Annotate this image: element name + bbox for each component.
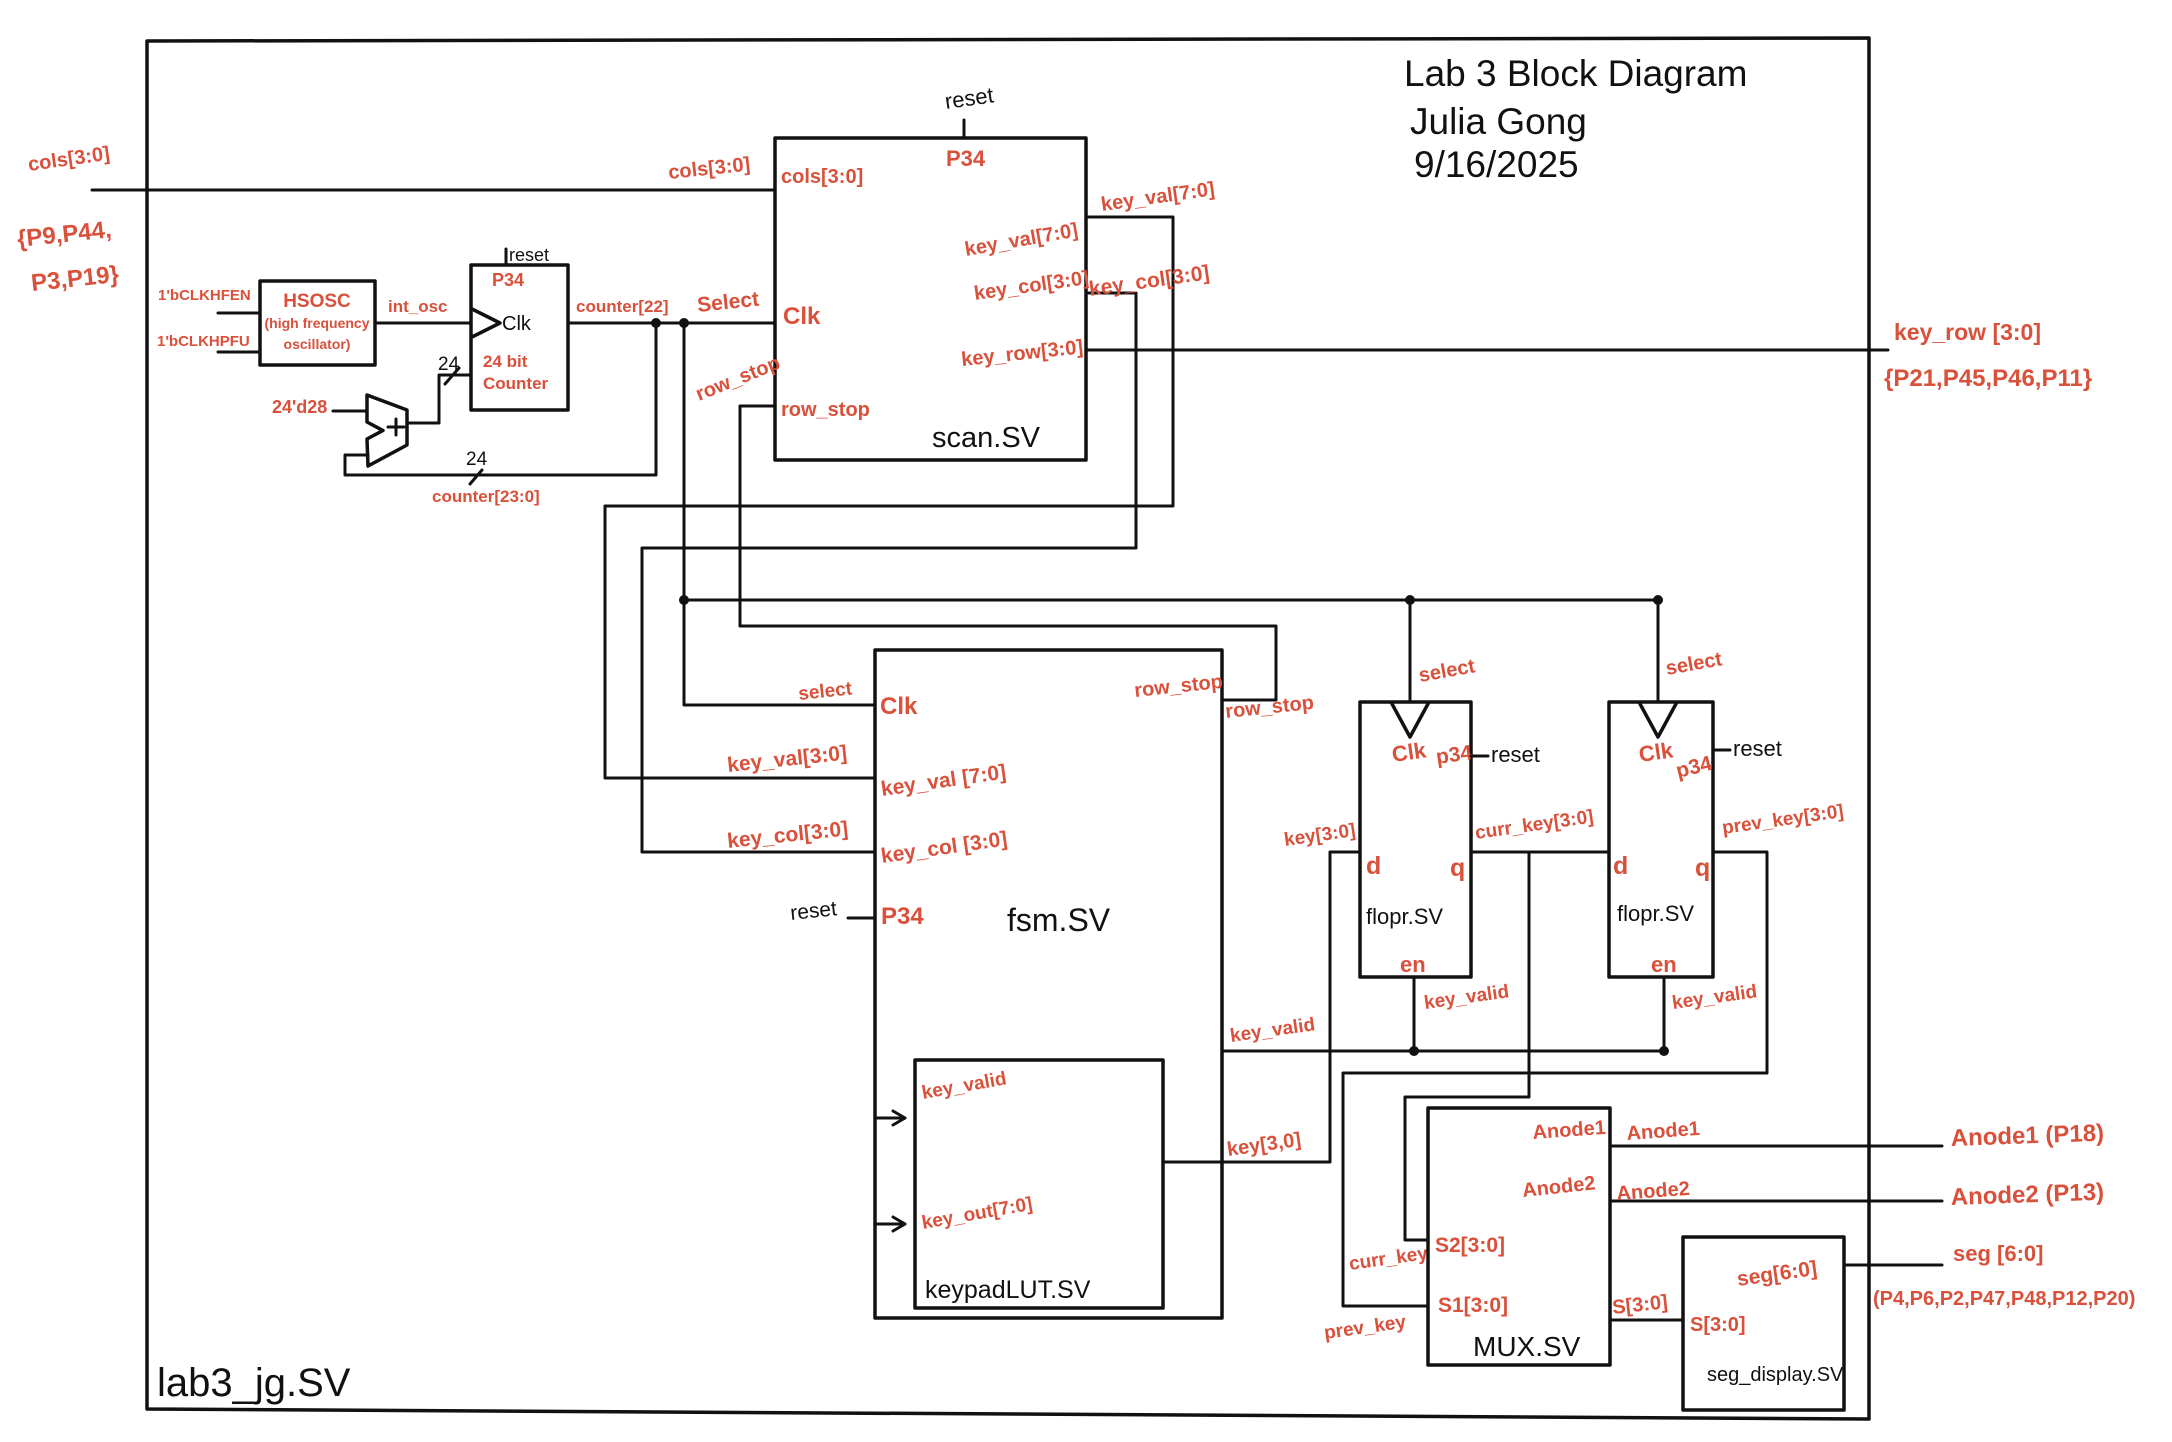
junction select at counter wire <box>679 318 689 328</box>
svg-text:P34: P34 <box>492 270 524 290</box>
svg-text:{P21,P45,P46,P11}: {P21,P45,P46,P11} <box>1884 365 2092 392</box>
wire prev_key[3:0] <box>1343 852 1767 1306</box>
label counter[22] <box>576 297 669 316</box>
label seg[6:0] pin <box>1735 1257 1818 1291</box>
svg-text:HSOSC: HSOSC <box>283 291 351 312</box>
label reset flopr2 <box>1733 736 1782 761</box>
wire CLKHPFU input <box>218 351 260 354</box>
module MUX.SV <box>1428 1108 1610 1365</box>
wire CLKHFEN input <box>218 312 260 315</box>
label key[3:0] at flopr1 d <box>1283 820 1357 851</box>
svg-text:Anode1 (P18): Anode1 (P18) <box>1950 1120 2104 1152</box>
label prev_key[3:0] <box>1721 801 1845 839</box>
junction key_valid flopr1 <box>1409 1046 1419 1056</box>
label key_col[3:0] fsm pin <box>879 827 1008 867</box>
svg-text:d: d <box>1613 852 1628 880</box>
label key_val[7:0] right of scan <box>1100 178 1216 216</box>
wire arrow into key_valid <box>877 1111 905 1125</box>
module HSOSC U1 <box>260 281 375 365</box>
svg-text:seg_display.SV: seg_display.SV <box>1707 1364 1844 1386</box>
label Clk flopr1 pin <box>1390 737 1428 767</box>
svg-text:MUX.SV: MUX.SV <box>1473 1331 1581 1362</box>
wire counter reset tick <box>505 249 508 265</box>
label key_out[7:0] keypadLUT pin <box>920 1194 1034 1234</box>
svg-text:24: 24 <box>438 354 460 375</box>
wire select net <box>684 323 1658 705</box>
svg-text:Clk: Clk <box>1390 737 1428 767</box>
label row_stop fsm pin <box>1133 671 1224 702</box>
svg-text:24: 24 <box>466 449 488 470</box>
svg-text:en: en <box>1400 952 1426 977</box>
label P34 fsm pin <box>881 903 924 930</box>
label cols[3:0] far left <box>27 143 112 176</box>
svg-text:seg [6:0]: seg [6:0] <box>1953 1241 2043 1266</box>
label key_valid below flopr1 <box>1423 981 1511 1014</box>
junction select flopr2 <box>1653 595 1663 605</box>
svg-text:Julia Gong: Julia Gong <box>1410 101 1587 142</box>
wire cols[3:0] <box>92 189 775 192</box>
svg-text:cols[3:0]: cols[3:0] <box>781 166 863 188</box>
svg-text:fsm.SV: fsm.SV <box>1007 902 1111 938</box>
svg-text:lab3_jg.SV: lab3_jg.SV <box>157 1361 351 1405</box>
svg-text:reset: reset <box>789 897 838 925</box>
wire int_osc <box>375 322 471 325</box>
label P34 counter reset pin <box>492 270 524 290</box>
svg-text:reset: reset <box>1733 736 1782 761</box>
bus slash 24 (feedback) <box>466 449 488 484</box>
label en flopr2 pin <box>1651 952 1677 977</box>
wire row_stop <box>740 406 1276 700</box>
label key_col[3:0] right of scan <box>1087 261 1210 301</box>
label S2[3:0] mux pin <box>1435 1234 1505 1257</box>
svg-text:counter[22]: counter[22] <box>576 297 669 316</box>
svg-text:1'bCLKHPFU: 1'bCLKHPFU <box>157 333 250 350</box>
module fsm.SV <box>875 650 1222 1318</box>
label q flopr2 pin <box>1695 854 1710 882</box>
label key_valid keypadLUT pin <box>920 1068 1008 1104</box>
label cols[3:0] scan pin <box>781 166 863 188</box>
svg-text:P34: P34 <box>881 903 924 930</box>
label reset (scan) <box>943 82 995 114</box>
label curr_key at mux <box>1348 1243 1430 1275</box>
wire curr_key[3:0] <box>1405 852 1609 1240</box>
svg-text:q: q <box>1695 854 1710 882</box>
label key_val[3:0] at fsm <box>726 742 848 777</box>
wire counter[23:0] feedback <box>345 323 775 475</box>
svg-text:Anode2 (P13): Anode2 (P13) <box>1950 1179 2104 1211</box>
svg-text:24'd28: 24'd28 <box>272 397 327 417</box>
label select at flopr1 <box>1417 655 1477 687</box>
bus slash 24 (adder output) <box>438 354 460 384</box>
svg-text:keypadLUT.SV: keypadLUT.SV <box>925 1276 1091 1304</box>
wire scan reset tick <box>963 120 966 138</box>
label key[3,0] <box>1226 1129 1303 1161</box>
clock edge symbol flopr1 <box>1391 702 1429 737</box>
svg-text:flopr.SV: flopr.SV <box>1617 901 1694 926</box>
label 24'd28 <box>272 397 327 417</box>
label d flopr2 pin <box>1613 852 1628 880</box>
label counter[23:0] <box>432 487 540 506</box>
label select at flopr2 <box>1664 648 1724 680</box>
wire key_col[3:0] <box>642 293 1136 852</box>
junction select flopr1 <box>1405 595 1415 605</box>
svg-text:S2[3:0]: S2[3:0] <box>1435 1234 1505 1257</box>
svg-text:9/16/2025: 9/16/2025 <box>1414 144 1579 185</box>
wire Anode2 <box>1610 1200 1942 1203</box>
label key_valid near fsm <box>1229 1014 1317 1047</box>
label seg pins list <box>1873 1288 2135 1310</box>
label S[3:0] seg pin <box>1690 1314 1746 1336</box>
label Anode1 mux pin <box>1532 1117 1607 1144</box>
label row_stop right of fsm <box>1224 692 1315 723</box>
label Anode2 outside <box>1616 1178 1691 1205</box>
svg-text:int_osc: int_osc <box>388 297 448 316</box>
label select at fsm clk <box>797 678 853 705</box>
label Clk (counter) <box>502 313 532 335</box>
label seg[6:0] outside <box>1953 1241 2043 1266</box>
module flopr.SV U3 <box>1360 702 1471 977</box>
svg-text:scan.SV: scan.SV <box>932 422 1041 454</box>
svg-text:Clk: Clk <box>783 303 821 330</box>
label reset (counter) <box>509 245 549 265</box>
wire key[3:0] <box>1163 852 1360 1162</box>
wire flopr2 reset tick <box>1713 749 1730 752</box>
label int_osc <box>388 297 448 316</box>
label key_col[3:0] at fsm <box>726 817 849 853</box>
module scan.SV <box>775 138 1086 460</box>
svg-text:S[3:0]: S[3:0] <box>1690 1314 1746 1336</box>
wire flopr1 reset tick <box>1471 755 1488 758</box>
label pins P21 P45 P46 P11 <box>1884 365 2092 392</box>
svg-text:(P4,P6,P2,P47,P48,P12,P20): (P4,P6,P2,P47,P48,P12,P20) <box>1873 1288 2135 1310</box>
label lab3_jg.SV <box>157 1361 351 1405</box>
label p34 flopr1 pin <box>1434 741 1473 769</box>
label key_val[7:0] fsm pin <box>879 761 1007 801</box>
label cols[3:0] outside scan <box>667 153 751 183</box>
label key_col[3:0] scan pin <box>973 267 1091 305</box>
svg-text:en: en <box>1651 952 1677 977</box>
label S[3:0] between mux and seg <box>1611 1291 1669 1319</box>
svg-text:oscillator): oscillator) <box>284 336 351 352</box>
svg-text:24 bit: 24 bit <box>483 352 528 371</box>
label Clk scan pin <box>783 303 821 330</box>
clock edge symbol flopr2 <box>1639 702 1677 737</box>
svg-text:reset: reset <box>1491 742 1540 767</box>
label p34 flopr2 pin <box>1674 752 1715 783</box>
svg-text:flopr.SV: flopr.SV <box>1366 904 1443 929</box>
label key_valid below flopr2 <box>1671 981 1759 1014</box>
svg-text:row_stop: row_stop <box>781 399 870 421</box>
label Anode1 (P18) <box>1950 1120 2104 1152</box>
label reset flopr1 <box>1491 742 1540 767</box>
svg-text:Lab 3 Block Diagram: Lab 3 Block Diagram <box>1404 53 1747 94</box>
label pins P9 P44 P3 P19 <box>16 216 120 297</box>
label 1'bCLKHFEN <box>158 287 251 304</box>
label prev_key at mux <box>1323 1312 1408 1344</box>
junction counter output <box>651 318 661 328</box>
wire fsm reset tick <box>848 917 875 920</box>
label Select (near counter) <box>696 288 760 317</box>
svg-text:P34: P34 <box>946 146 986 171</box>
label Anode1 outside <box>1626 1118 1701 1145</box>
svg-text:S1[3:0]: S1[3:0] <box>1438 1294 1508 1317</box>
label en flopr1 pin <box>1400 952 1426 977</box>
junction key_valid flopr2 <box>1659 1046 1669 1056</box>
label row_stop near scan <box>693 352 784 406</box>
module 24-bit counter U2 <box>471 265 568 410</box>
adder A1 <box>367 395 407 466</box>
title Lab 3 Block Diagram <box>1404 53 1747 185</box>
wire 24'd28 into adder <box>333 410 367 413</box>
wire arrow into key_out <box>877 1217 905 1231</box>
svg-text:1'bCLKHFEN: 1'bCLKHFEN <box>158 287 251 304</box>
outer border lab3_jg.SV <box>147 38 1869 1419</box>
label Clk flopr2 pin <box>1637 737 1675 767</box>
svg-text:Counter: Counter <box>483 374 549 393</box>
label Anode2 mux pin <box>1521 1172 1596 1202</box>
label S1[3:0] mux pin <box>1438 1294 1508 1317</box>
wire key_val[7:0] <box>605 217 1173 778</box>
wire key_row[3:0] <box>1086 349 1888 352</box>
label curr_key[3:0] <box>1474 807 1595 844</box>
label q flopr1 pin <box>1450 854 1465 882</box>
label Clk fsm pin <box>880 693 918 720</box>
label reset (fsm) <box>789 897 838 925</box>
wire Anode1 <box>1610 1145 1942 1148</box>
svg-text:counter[23:0]: counter[23:0] <box>432 487 540 506</box>
junction select branch <box>679 595 689 605</box>
wire S[3:0] <box>1610 1319 1683 1322</box>
svg-text:reset: reset <box>509 245 549 265</box>
module keypadLUT.SV <box>915 1060 1163 1308</box>
label row_stop scan pin <box>781 399 870 421</box>
wire adder output to counter <box>407 375 471 423</box>
module seg_display.SV <box>1683 1237 1844 1410</box>
label key_val[7:0] scan pin <box>963 219 1080 261</box>
svg-text:key_row [3:0]: key_row [3:0] <box>1894 319 2041 345</box>
label 1'bCLKHPFU <box>157 333 250 350</box>
wire key_valid net <box>1222 977 1665 1051</box>
label key_row[3:0] scan pin <box>960 336 1084 371</box>
module flopr.SV U4 <box>1609 702 1713 977</box>
svg-text:Clk: Clk <box>880 693 918 720</box>
wire seg[6:0] <box>1844 1264 1942 1267</box>
label Anode2 (P13) <box>1950 1179 2104 1211</box>
svg-text:q: q <box>1450 854 1465 882</box>
svg-text:d: d <box>1366 852 1381 880</box>
label P34 scan <box>946 146 986 171</box>
svg-text:Clk: Clk <box>502 313 532 335</box>
svg-text:(high frequency: (high frequency <box>264 315 369 331</box>
clock edge symbol counter <box>472 309 500 337</box>
label key_row[3:0] <box>1894 319 2041 345</box>
label d flopr1 pin <box>1366 852 1381 880</box>
svg-text:Clk: Clk <box>1637 737 1675 767</box>
